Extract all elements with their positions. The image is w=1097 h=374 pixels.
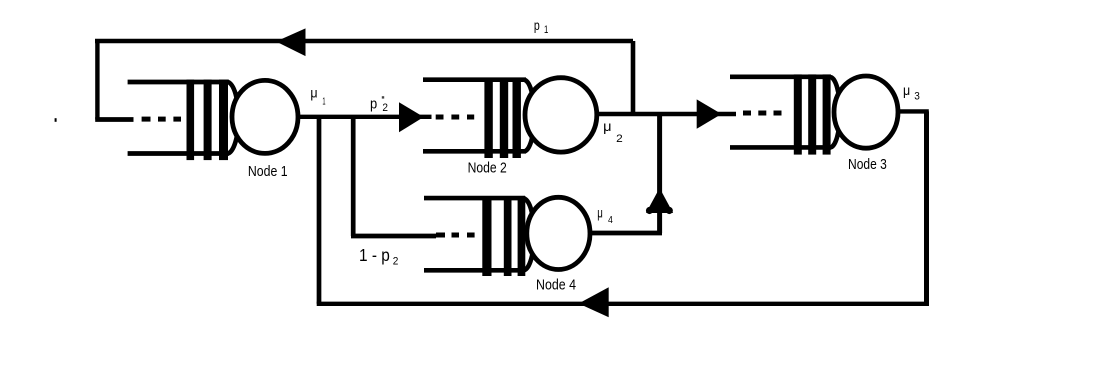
svg-text:2: 2 <box>616 133 623 145</box>
svg-text:μ: μ <box>597 205 603 220</box>
svg-text:2: 2 <box>382 102 388 114</box>
node 3 queue dots <box>743 111 782 116</box>
node 4 server circle <box>527 197 590 269</box>
wire node 4 input horizontal <box>351 234 436 239</box>
wire node 1 output horizontal <box>298 115 432 119</box>
svg-text:μ: μ <box>903 83 910 98</box>
arrowhead left on bottom feedback <box>579 287 609 317</box>
svg-text:Node 1: Node 1 <box>248 164 288 180</box>
wire right feedback vertical <box>924 111 929 303</box>
svg-text:4: 4 <box>608 214 613 226</box>
wire node 3 output horizontal <box>898 109 929 113</box>
svg-text:1: 1 <box>322 95 325 107</box>
stray dot above p2 <box>382 96 384 98</box>
wire split vertical to node 4 <box>351 115 356 236</box>
wire split vertical to bottom feedback (node A junction) <box>317 115 322 304</box>
wire left feedback vertical <box>95 41 99 120</box>
node 1 queue <box>128 80 239 161</box>
svg-text:2: 2 <box>393 255 399 267</box>
node 3 server circle <box>834 76 898 148</box>
svg-text:μ: μ <box>310 86 317 101</box>
node 3 queue <box>730 74 840 154</box>
arrowhead left on p1 line <box>276 28 306 56</box>
svg-text:1: 1 <box>544 24 548 36</box>
arrowhead right into node 2 <box>399 102 424 132</box>
wire node 2 output horizontal <box>597 112 736 116</box>
node 2 queue dots <box>436 115 475 120</box>
wire p1 feedback right vertical <box>631 41 636 115</box>
wire left entry into node 1 <box>95 117 133 122</box>
node 1 server circle <box>232 80 298 153</box>
wire bottom feedback horizontal <box>317 302 929 306</box>
svg-text:p: p <box>370 95 377 112</box>
node 1 queue dots <box>142 117 181 122</box>
node 4 queue <box>424 196 534 276</box>
svg-text:p: p <box>534 17 540 33</box>
wire node 4 output horizontal <box>590 231 662 236</box>
svg-text:Node 3: Node 3 <box>848 157 887 173</box>
svg-text:1 - p: 1 - p <box>359 245 390 265</box>
svg-text:Node 2: Node 2 <box>468 160 507 176</box>
stray tick mark far left <box>55 118 57 122</box>
svg-text:3: 3 <box>914 91 920 103</box>
wire p1 feedback top horizontal <box>95 39 633 43</box>
node 2 queue <box>423 80 534 159</box>
wire node 4 merge vertical with up arrow <box>657 115 662 234</box>
svg-text:Node 4: Node 4 <box>536 278 576 294</box>
node 4 queue dots <box>436 233 475 238</box>
arrowhead right into node 3 <box>697 99 722 128</box>
node 2 server circle <box>525 78 597 152</box>
arrowhead up on merge vertical <box>646 188 673 213</box>
svg-text:μ: μ <box>603 119 611 134</box>
